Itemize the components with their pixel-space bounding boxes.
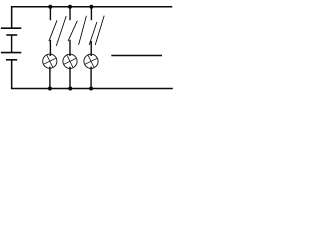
battery cell 1 long plate [1,27,21,29]
wire lamp 1 to bottom [49,67,51,89]
wire switch 3 lower stub [90,41,92,56]
node dot bottom branch 3 [89,87,93,91]
lamp L2 [63,54,77,68]
wire switch 2 upper stub [69,7,71,21]
switch S2 blade left [68,21,77,41]
wire switch 1 lower stub [49,40,51,56]
wire lamp 3 to bottom [90,67,92,89]
wire switch 1 upper stub [49,7,51,21]
switch S2 blade right [79,16,87,45]
node dot top branch 3 [89,5,93,9]
wire battery to bottom wire [11,60,13,88]
wire between battery cells [11,35,13,52]
wire top horizontal [11,6,172,8]
battery cell 2 long plate [1,52,21,54]
switch S3 blade left [89,22,97,45]
lamp L1 [43,54,57,68]
wire middle right floating segment [111,55,162,57]
node dot top branch 2 [68,5,72,9]
switch S3 blade right [95,16,104,45]
switch S1 blade right [56,16,66,46]
battery cell 1 short plate [6,34,17,36]
node dot bottom branch 2 [68,87,72,91]
wire bottom horizontal [11,88,173,90]
wire left vertical from top wire to battery [11,7,13,28]
node dot top branch 1 [48,5,52,9]
wire switch 2 lower stub [69,40,71,56]
wire switch 3 upper stub [90,7,92,21]
battery cell 2 short plate [6,59,17,61]
node dot bottom branch 1 [48,87,52,91]
switch S1 blade left [49,20,57,41]
wire lamp 2 to bottom [69,67,71,89]
lamp L3 [84,54,98,68]
